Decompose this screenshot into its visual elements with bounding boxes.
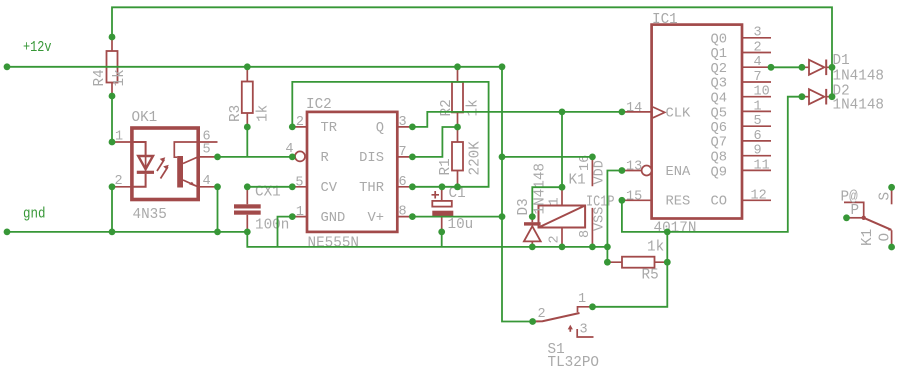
svg-text:VDD: VDD bbox=[593, 160, 608, 184]
svg-text:14: 14 bbox=[626, 101, 642, 116]
svg-text:4017N: 4017N bbox=[654, 220, 697, 236]
wire top rail R4 to diode cathodes bbox=[112, 7, 832, 96]
relay coil K1 bbox=[539, 173, 586, 247]
svg-text:THR: THR bbox=[359, 181, 384, 196]
diode D2 bbox=[802, 84, 884, 114]
wire +12v rail bbox=[7, 66, 502, 68]
svg-text:R5: R5 bbox=[642, 268, 659, 284]
resistor R2 bbox=[439, 67, 482, 127]
wire R3 bottom bbox=[246, 127, 248, 157]
svg-text:5: 5 bbox=[203, 143, 211, 158]
wire gnd rail bbox=[7, 231, 247, 233]
svg-text:ENA: ENA bbox=[666, 165, 692, 180]
wire OK1 pin2 to gnd rail bbox=[111, 187, 113, 232]
svg-text:3: 3 bbox=[399, 115, 407, 130]
wire V+ bbox=[412, 216, 502, 218]
svg-text:1: 1 bbox=[754, 99, 762, 114]
svg-text:1N4148: 1N4148 bbox=[533, 163, 549, 214]
svg-text:1k: 1k bbox=[112, 69, 128, 86]
diode D3 bbox=[516, 163, 549, 247]
svg-text:O: O bbox=[878, 233, 894, 242]
svg-text:1: 1 bbox=[578, 292, 586, 307]
switch S1 TL32PO bbox=[533, 292, 599, 371]
svg-text:7: 7 bbox=[399, 145, 407, 160]
svg-text:Q1: Q1 bbox=[710, 47, 727, 62]
resistor R5 bbox=[607, 240, 667, 284]
wire RES node to D2 bbox=[622, 97, 802, 232]
wire TR to THR node bbox=[292, 82, 488, 187]
wire R4 to OK1 pin1 bbox=[111, 96, 113, 142]
svg-text:10u: 10u bbox=[448, 217, 474, 233]
svg-text:1k: 1k bbox=[466, 99, 482, 116]
svg-text:7: 7 bbox=[754, 70, 762, 85]
svg-text:gnd: gnd bbox=[23, 207, 46, 223]
svg-text:TL32PO: TL32PO bbox=[548, 355, 599, 371]
svg-text:1N4148: 1N4148 bbox=[833, 98, 884, 114]
wire VDD feed bbox=[502, 156, 592, 158]
svg-text:R1: R1 bbox=[438, 158, 454, 175]
svg-text:5: 5 bbox=[754, 114, 762, 129]
wire R5 right to S1 pin1 bbox=[593, 232, 668, 307]
svg-text:IC1: IC1 bbox=[652, 12, 678, 28]
svg-text:RES: RES bbox=[666, 195, 691, 210]
svg-text:6: 6 bbox=[399, 175, 407, 190]
svg-text:K1: K1 bbox=[860, 229, 876, 246]
svg-text:Q0: Q0 bbox=[710, 32, 727, 47]
svg-text:CO: CO bbox=[710, 195, 727, 210]
svg-text:13: 13 bbox=[626, 160, 642, 175]
IC2 NE555N timer bbox=[285, 97, 412, 252]
svg-text:2: 2 bbox=[115, 174, 123, 189]
svg-text:11: 11 bbox=[754, 158, 770, 173]
svg-text:IC2: IC2 bbox=[306, 97, 332, 113]
IC1P power pins symbol bbox=[578, 155, 615, 247]
svg-text:R: R bbox=[321, 151, 329, 166]
resistor R3 bbox=[228, 67, 272, 127]
svg-text:1k: 1k bbox=[256, 105, 272, 122]
wire Q to CLK bbox=[412, 112, 622, 127]
svg-text:10: 10 bbox=[754, 85, 770, 100]
svg-text:Q4: Q4 bbox=[710, 91, 727, 106]
svg-text:2: 2 bbox=[754, 40, 762, 55]
svg-text:1: 1 bbox=[548, 197, 563, 205]
svg-text:VSS: VSS bbox=[593, 207, 608, 231]
svg-text:2: 2 bbox=[538, 307, 546, 322]
svg-text:V+: V+ bbox=[367, 211, 384, 226]
wire DIS to R1R2 node bbox=[412, 127, 457, 157]
wire D3 to K1 coil bbox=[532, 187, 562, 216]
svg-text:D3: D3 bbox=[516, 198, 532, 215]
svg-text:1: 1 bbox=[296, 205, 304, 220]
wire Q2 to D1 bbox=[771, 66, 802, 68]
svg-text:CLK: CLK bbox=[666, 106, 692, 121]
svg-text:3: 3 bbox=[754, 26, 762, 41]
svg-text:Q3: Q3 bbox=[710, 77, 727, 92]
svg-text:100n: 100n bbox=[255, 218, 289, 234]
svg-text:OK1: OK1 bbox=[132, 110, 158, 126]
svg-text:R4: R4 bbox=[92, 69, 108, 86]
svg-text:TR: TR bbox=[321, 121, 338, 136]
svg-text:9: 9 bbox=[754, 144, 762, 159]
wire lower gnd rail bbox=[247, 232, 607, 247]
capacitor C1 bbox=[432, 186, 474, 233]
wire R5 left to rail bbox=[606, 247, 608, 262]
svg-text:3: 3 bbox=[580, 323, 588, 338]
svg-text:8: 8 bbox=[399, 205, 407, 220]
svg-text:1N4148: 1N4148 bbox=[833, 69, 884, 85]
svg-text:2: 2 bbox=[296, 115, 304, 130]
svg-text:+12v: +12v bbox=[23, 40, 52, 56]
wire OK1 pin5 to IC2 reset bbox=[218, 156, 293, 158]
svg-text:1k: 1k bbox=[647, 240, 664, 256]
svg-text:12: 12 bbox=[751, 188, 767, 203]
svg-text:Q8: Q8 bbox=[710, 151, 727, 166]
svg-text:R2: R2 bbox=[439, 99, 455, 116]
svg-text:4: 4 bbox=[203, 174, 211, 189]
svg-text:DIS: DIS bbox=[359, 151, 384, 166]
relay contact K1 bbox=[841, 187, 894, 247]
svg-text:5: 5 bbox=[295, 175, 303, 190]
svg-text:6: 6 bbox=[754, 129, 762, 144]
svg-text:Q5: Q5 bbox=[710, 106, 727, 121]
svg-text:Q: Q bbox=[376, 121, 384, 136]
resistor R1 bbox=[438, 127, 484, 187]
wire K1 coil drive bbox=[561, 112, 563, 187]
svg-text:GND: GND bbox=[321, 211, 346, 226]
wire CX1 to CV bbox=[247, 186, 292, 188]
svg-text:4: 4 bbox=[754, 55, 762, 70]
svg-text:220K: 220K bbox=[468, 141, 484, 176]
optocoupler OK1 bbox=[112, 110, 218, 223]
svg-text:4N35: 4N35 bbox=[133, 207, 167, 223]
svg-text:Q9: Q9 bbox=[710, 165, 727, 180]
svg-text:15: 15 bbox=[626, 189, 642, 204]
wire IC2 GND pin to rail bbox=[278, 217, 293, 247]
svg-text:2: 2 bbox=[548, 235, 563, 243]
svg-text:Q7: Q7 bbox=[710, 136, 727, 151]
wire ENA to gnd bbox=[607, 171, 622, 247]
resistor R4 bbox=[92, 37, 128, 96]
wire +12v vertical to S1 bbox=[502, 67, 533, 322]
IC1 4017N counter bbox=[622, 12, 771, 236]
svg-text:K1: K1 bbox=[569, 173, 586, 189]
wire OK1 pin4 to gnd rail bbox=[217, 187, 219, 232]
svg-text:NE555N: NE555N bbox=[308, 236, 359, 252]
svg-text:CV: CV bbox=[321, 181, 338, 196]
svg-text:S: S bbox=[878, 192, 894, 201]
capacitor CX1 bbox=[234, 185, 289, 234]
svg-text:1: 1 bbox=[115, 130, 123, 145]
svg-text:8: 8 bbox=[578, 230, 593, 238]
diode D1 bbox=[802, 53, 884, 85]
wire THR node bbox=[412, 186, 457, 188]
svg-text:Q2: Q2 bbox=[710, 62, 727, 77]
svg-text:R3: R3 bbox=[228, 105, 244, 122]
svg-text:P: P bbox=[851, 203, 860, 219]
svg-text:Q6: Q6 bbox=[710, 121, 727, 136]
wire C1 bottom to rail bbox=[441, 232, 443, 247]
